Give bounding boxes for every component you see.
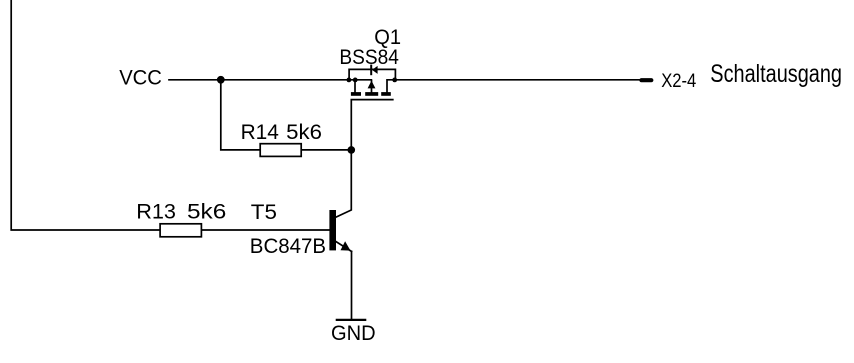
svg-text:BC847B: BC847B <box>250 233 326 258</box>
svg-text:5k6: 5k6 <box>286 119 322 144</box>
svg-text:R14: R14 <box>241 119 279 144</box>
svg-text:GND: GND <box>331 322 376 345</box>
svg-text:T5: T5 <box>251 199 277 224</box>
svg-text:R13: R13 <box>136 198 176 223</box>
svg-text:BSS84: BSS84 <box>339 46 399 69</box>
svg-text:5k6: 5k6 <box>187 198 226 223</box>
svg-text:X2-4: X2-4 <box>661 71 696 92</box>
svg-text:Schaltausgang: Schaltausgang <box>710 61 842 88</box>
svg-text:VCC: VCC <box>119 66 162 89</box>
